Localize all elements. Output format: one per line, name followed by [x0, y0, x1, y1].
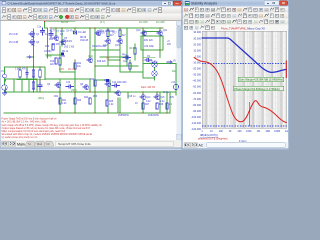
resistor R16	[107, 30, 109, 37]
svg-text:30.000: 30.000	[193, 37, 201, 40]
svg-text:2N5.1 W2: 2N5.1 W2	[64, 47, 75, 49]
svg-text:C:\Users\Duda\Dado\Audio\MOSFE: C:\Users\Duda\Dado\Audio\MOSFET-50_T\Tub…	[8, 2, 116, 6]
svg-text:C1a: C1a	[37, 27, 42, 29]
capacitor C4	[38, 82, 42, 90]
resistor R9	[59, 58, 61, 65]
desktop background	[0, 0, 289, 150]
svg-text:10K: 10K	[237, 130, 242, 133]
source V2 small	[3, 74, 7, 78]
source V1	[2, 85, 7, 90]
svg-text:R27: R27	[145, 104, 150, 106]
capacitor C1a	[41, 28, 45, 35]
svg-text:R31 220: R31 220	[144, 40, 153, 42]
transistor Q1	[29, 33, 35, 38]
svg-text:Temp=27 CPU time 0.4s: Temp=27 CPU time 0.4s	[58, 142, 91, 146]
wire top pair link	[143, 31, 160, 33]
diode D2	[126, 56, 129, 59]
wire R3 column	[26, 67, 28, 80]
svg-text:23.4 W0: 23.4 W0	[156, 22, 165, 24]
wire mid links	[46, 33, 143, 113]
svg-text:48V: 48V	[170, 97, 175, 99]
dashed reference line 0dB	[202, 63, 287, 65]
svg-text:-80.000: -80.000	[193, 104, 202, 107]
resistor R14	[74, 63, 76, 69]
svg-text:R28: R28	[159, 104, 164, 106]
phase wrap spike right edge	[285, 61, 287, 79]
wire cascode drops	[45, 28, 91, 58]
diode D1	[74, 31, 77, 34]
toolbars	[183, 7, 289, 13]
svg-text:(49m): (49m)	[38, 98, 44, 100]
right scrollbar	[176, 21, 181, 140]
svg-text:-10.000: -10.000	[193, 62, 202, 65]
svg-text:23.4 W3: 23.4 W3	[139, 22, 148, 24]
svg-text:R14: R14	[77, 63, 82, 65]
capacitor C6 polarized	[106, 79, 109, 82]
svg-text:0.22: 0.22	[146, 101, 151, 103]
svg-text:1N4148: 1N4148	[80, 40, 89, 42]
svg-text:100M: 100M	[274, 130, 280, 133]
svg-text:2N5401: 2N5401	[64, 41, 73, 43]
node junction dots bottom rail	[59, 112, 60, 113]
svg-text:Gain Margin=29.0847dB (5.945MH: Gain Margin=29.0847dB (5.945MHz)	[239, 78, 283, 82]
schematic area	[1, 21, 177, 140]
svg-text:Txt: Txt	[28, 142, 32, 146]
wire output columns	[127, 28, 176, 113]
resistor R22	[59, 98, 61, 104]
resistor R28	[156, 103, 158, 109]
resistor R5	[32, 82, 34, 89]
wire feedback loop	[141, 36, 163, 50]
svg-text:10.000: 10.000	[193, 49, 201, 52]
svg-text:-50.000: -50.000	[193, 86, 202, 89]
resistor R12	[55, 58, 57, 64]
svg-text:R13: R13	[61, 56, 66, 58]
svg-text:1K: 1K	[229, 130, 232, 133]
svg-text:-30.000: -30.000	[193, 74, 202, 77]
wire top supply rail	[50, 27, 163, 29]
wire bottom negative rail	[4, 112, 170, 114]
svg-text:-100.000: -100.000	[191, 116, 201, 119]
transistor Q15	[105, 83, 111, 88]
transistor Q9	[55, 84, 61, 89]
transistor Q2	[29, 41, 35, 46]
chart window icon	[185, 1, 189, 5]
wire upper sub rail	[45, 21, 76, 28]
svg-text:+V4: +V4	[171, 82, 176, 84]
wire long tail column	[33, 29, 35, 92]
svg-text:Q4 2N5.1: Q4 2N5.1	[52, 44, 63, 46]
resistor R4	[39, 70, 41, 77]
transistor Q11	[157, 32, 163, 37]
svg-text:(74V): (74V)	[71, 90, 77, 92]
transistor Q6	[87, 59, 93, 64]
svg-text:25.0 14F: 25.0 14F	[9, 34, 19, 36]
svg-text:C15 1u: C15 1u	[128, 96, 136, 98]
svg-text:phase(v(OUT)) (Degrees): phase(v(OUT)) (Degrees)	[198, 136, 228, 140]
svg-text:Rac1 430 Oh: Rac1 430 Oh	[141, 86, 156, 89]
transistor Q10	[141, 32, 147, 37]
svg-text:(c) audio power amp study rev: (c) audio power amp study rev 2.1	[2, 136, 39, 139]
resistor R10	[52, 44, 54, 50]
resistor R2	[19, 70, 21, 77]
wire C9 row	[143, 50, 160, 58]
svg-text:R10: R10	[45, 46, 50, 48]
svg-text:C7 100n: C7 100n	[56, 31, 65, 33]
svg-text:Inf: Inf	[47, 142, 50, 146]
wire lower mesh	[6, 60, 171, 113]
capacitor C11	[123, 56, 131, 59]
svg-text:+8.4y: +8.4y	[46, 56, 53, 58]
svg-text:29.1 W: 29.1 W	[68, 68, 76, 71]
svg-text:Q16: Q16	[160, 97, 165, 99]
bottom tab bar	[183, 142, 289, 148]
svg-text:-40.000: -40.000	[193, 80, 202, 83]
svg-text:R26: R26	[93, 96, 98, 98]
svg-text:C3 68p: C3 68p	[44, 51, 52, 53]
svg-text:100n: 100n	[96, 34, 102, 36]
svg-text:40.000: 40.000	[193, 31, 201, 34]
svg-text:-60.000: -60.000	[193, 92, 202, 95]
wire mid ground rail	[6, 91, 177, 93]
wire input rail upper	[5, 67, 46, 92]
svg-text:C16 100p: C16 100p	[144, 46, 155, 48]
svg-text:Q11: Q11	[163, 30, 168, 32]
capacitor C14	[112, 84, 120, 87]
svg-text:R23: R23	[77, 100, 82, 102]
svg-text:2N5200/W: 2N5200/W	[148, 115, 160, 117]
svg-text:(23.9): (23.9)	[129, 48, 135, 50]
capacitor C5 polarized	[61, 53, 64, 56]
svg-text:-90.000: -90.000	[193, 110, 202, 113]
svg-text:(1.4): (1.4)	[88, 56, 93, 58]
svg-text:R20: R20	[90, 79, 95, 81]
resistor R15	[134, 48, 136, 54]
transistor Q5	[60, 41, 66, 46]
svg-text:R18 220: R18 220	[97, 61, 106, 63]
resistor R17	[119, 30, 121, 37]
transistor Q16	[154, 96, 160, 101]
svg-text:(0.7): (0.7)	[100, 22, 105, 24]
wire input rail mid	[17, 67, 45, 80]
capacitor C9	[145, 59, 152, 62]
mosfet M2	[152, 71, 157, 76]
capacitor C13	[66, 85, 74, 88]
transistor Q17	[115, 92, 121, 97]
probe arrow out	[167, 61, 172, 63]
svg-text:-20.000: -20.000	[193, 68, 202, 71]
svg-text:20.000: 20.000	[193, 43, 201, 46]
svg-text:AC: AC	[199, 144, 204, 148]
transistor Q14	[140, 96, 146, 101]
schematic drawing	[1, 21, 179, 139]
svg-text:10M: 10M	[265, 130, 270, 133]
svg-text:100: 100	[219, 130, 224, 133]
svg-text:Stability Analysis: Stability Analysis	[191, 2, 217, 6]
dashed reference line -180deg	[202, 125, 287, 127]
svg-text:Q10: Q10	[136, 30, 141, 32]
svg-text:R25: R25	[109, 101, 114, 103]
svg-text:Q15: Q15	[104, 80, 109, 82]
gain curve (blue)	[202, 38, 286, 72]
source V4	[173, 84, 178, 89]
chart region	[183, 27, 288, 143]
resistor R20	[94, 80, 96, 86]
svg-text:C8 47u: C8 47u	[66, 31, 74, 33]
current probe arrow	[28, 56, 31, 58]
app icon	[2, 1, 6, 5]
transistor Q12	[105, 40, 111, 45]
wire R4 column	[39, 67, 41, 92]
svg-text:Mod: Mod	[37, 142, 43, 146]
svg-text:0.45: 0.45	[59, 68, 64, 71]
capacitor C7	[49, 30, 53, 38]
node junction dots ground rail	[5, 91, 6, 92]
svg-text:AC77: AC77	[50, 30, 56, 33]
wire probe stub	[27, 56, 34, 58]
svg-text:R21: R21	[62, 100, 67, 102]
capacitor C2	[26, 70, 28, 77]
svg-text:0.000: 0.000	[195, 55, 202, 58]
svg-text:48V: 48V	[167, 44, 172, 46]
svg-text:R9 1k: R9 1k	[62, 51, 69, 53]
svg-text:D1 LED: D1 LED	[78, 32, 86, 34]
node junction dots top rail	[50, 27, 51, 28]
svg-text:C13: C13	[66, 82, 71, 84]
resistor R24	[89, 98, 91, 104]
resistor R25	[106, 100, 108, 106]
plot area with log grid	[202, 31, 287, 128]
mosfet M1	[152, 62, 157, 67]
svg-text:R8 68: R8 68	[80, 37, 87, 39]
svg-text:R24: R24	[84, 97, 89, 99]
wire vas columns	[95, 28, 120, 113]
resistor R29	[166, 103, 168, 109]
svg-text:Main: Main	[17, 142, 25, 146]
transistor Q13	[117, 40, 123, 45]
phase curve (red)	[194, 58, 286, 123]
transistor Q8	[83, 86, 89, 91]
node junction dots mid	[44, 21, 45, 22]
svg-text:1M: 1M	[257, 130, 260, 133]
svg-text:-120.000: -120.000	[191, 128, 201, 131]
svg-text:Q13: Q13	[115, 45, 120, 47]
svg-text:25.0 14B: 25.0 14B	[9, 42, 19, 44]
svg-text:Phase Margin=64.846deg (1.176M: Phase Margin=64.846deg (1.176MHz)	[234, 87, 280, 91]
svg-text:-70.000: -70.000	[193, 98, 202, 101]
svg-text:L1 2u: L1 2u	[163, 92, 169, 94]
wire output node	[170, 92, 176, 113]
resistor R23	[74, 98, 76, 104]
svg-text:C14 100n/400: C14 100n/400	[112, 82, 127, 84]
svg-text:2N5550/W: 2N5550/W	[118, 115, 130, 117]
svg-text:PHm: PHm	[122, 55, 127, 57]
bottom tab bar	[1, 140, 182, 147]
toolbars	[1, 7, 182, 14]
transistor Q3	[53, 37, 59, 42]
svg-text:R22: R22	[54, 96, 59, 98]
phase margin annotation box	[233, 86, 284, 91]
svg-text:4a.4 W: 4a.4 W	[61, 22, 69, 24]
partial 4th row	[183, 25, 289, 31]
resistor R3	[32, 70, 34, 77]
svg-text:R12: R12	[50, 61, 55, 63]
svg-text:100K: 100K	[246, 130, 252, 133]
wire R2 column	[19, 67, 21, 80]
gain margin annotation box	[238, 77, 284, 81]
caption buttons	[162, 1, 173, 5]
svg-text:-110.000: -110.000	[191, 122, 201, 125]
svg-text:1G: 1G	[285, 130, 288, 133]
svg-text:0.22: 0.22	[160, 101, 165, 103]
resistor R19	[129, 63, 131, 69]
svg-text:Q14: Q14	[146, 97, 151, 99]
cursor vertical line	[249, 102, 251, 126]
svg-text:R16: R16	[101, 33, 106, 35]
resistor R27	[142, 103, 144, 109]
svg-text:Plots_TIAMPTVRE_Micro-Cap XII: Plots_TIAMPTVRE_Micro-Cap XII	[221, 27, 265, 31]
svg-text:Q12: Q12	[103, 45, 108, 47]
transistor Q7	[95, 32, 101, 37]
ground V1	[3, 92, 7, 96]
